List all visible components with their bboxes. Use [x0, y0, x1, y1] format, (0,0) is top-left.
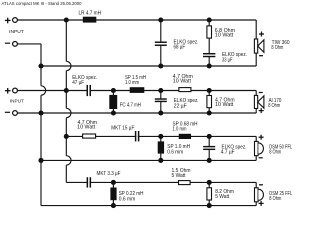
svg-text:5 Watt: 5 Watt: [172, 173, 187, 179]
resistor 8.2 Ohm 5 Watt: [207, 188, 212, 200]
minus mark DSM 50 FFL: [259, 157, 263, 159]
svg-text:8 Ohm: 8 Ohm: [271, 45, 283, 51]
svg-text:10 Watt: 10 Watt: [77, 125, 96, 131]
inductor SP 1.5 mH 1.0 mm: [130, 87, 145, 93]
node top rail / 6.8 Ohm: [207, 17, 212, 22]
capacitor ELKO spez. 4.7 uF (shunt): [203, 146, 215, 150]
node rail 3 / SP 1.0mH: [158, 134, 163, 139]
terminal input2 plus: [13, 88, 18, 93]
svg-text:8 Ohm: 8 Ohm: [269, 150, 281, 156]
label ELKO spez. 4.7 uF: [221, 144, 247, 155]
resistor 4.7 Ohm 10 Watt (row3 series): [83, 134, 96, 138]
wire rail y=160.4 (DSM 50 FFL return): [41, 159, 256, 161]
resistor 4.7 Ohm 10 Watt (shunt): [207, 96, 212, 108]
label SP 0.22 mH 0.6 mm: [119, 191, 144, 203]
svg-text:8 Ohm: 8 Ohm: [268, 103, 280, 109]
svg-text:4.7 µF: 4.7 µF: [221, 150, 235, 156]
inductor FC 4.7 mH: [109, 95, 117, 109]
svg-text:MKT 15 µF: MKT 15 µF: [111, 126, 134, 132]
wire branch x=209.2 rows 2: [208, 91, 210, 114]
node return rail 4 / 8.2 Ohm: [207, 203, 212, 208]
terminal input1 minus: [13, 42, 18, 47]
plus mark DSM 50 FFL: [259, 135, 264, 140]
svg-text:10 Watt: 10 Watt: [173, 79, 192, 85]
svg-text:68 µF: 68 µF: [174, 45, 186, 51]
wire rail y=113 (AL 170 return): [18, 112, 257, 114]
node plus-bus / top rail: [64, 17, 69, 22]
wire speaker feeds x=256.2: [255, 20, 257, 206]
svg-text:INPUT: INPUT: [9, 29, 24, 34]
node return rail 1 / ELKO 33uF: [207, 63, 212, 68]
inductor LR 4.7 mH: [83, 17, 97, 23]
wire branch x=209.2 rows 3: [208, 136, 210, 160]
label 8.2 Ohm 5 Watt: [215, 189, 234, 200]
resistor 1.5 Ohm 5 Watt: [179, 181, 191, 185]
label SP 1.0 mH 0.6 mm: [167, 144, 190, 155]
wire top rail y=20 (input1 + to TIW 360): [18, 19, 257, 21]
capacitor MKT 3.3 uF (series): [87, 177, 92, 187]
node return rail 2 / FC 4.7mH: [111, 110, 116, 115]
node return rail 3 / SP 1.0mH: [158, 158, 163, 163]
svg-text:FC 4.7 mH: FC 4.7 mH: [120, 103, 142, 109]
svg-text:0.6 mm: 0.6 mm: [119, 196, 136, 202]
wire input1 minus y=44: [18, 43, 41, 45]
capacitor ELKO spez. 22 uF (shunt): [155, 98, 167, 102]
node return rail 2 / ELKO 22uF: [158, 110, 163, 115]
svg-text:ATLAS compact MK III - Stand 2: ATLAS compact MK III - Stand 25.05.2000: [2, 1, 82, 6]
wire rail y=66 (TIW 360 return): [41, 65, 256, 67]
speaker DSM 50 FFL 8 Ohm: [255, 141, 264, 155]
svg-text:LR 4.7 mH: LR 4.7 mH: [79, 10, 102, 16]
wire minus bus x=41: [40, 44, 42, 206]
wire branch x=113.4 rows 4: [112, 182, 114, 205]
node minus-bus / return rail 2: [38, 110, 43, 115]
plus mark input1: [5, 18, 11, 24]
wire rail y=205.6 (DSM 25 FFL return): [41, 205, 256, 207]
plus mark input2: [5, 88, 11, 94]
label ELKO spez. 47 uF: [72, 75, 97, 86]
node rail 3 / ELKO 4.7uF: [207, 134, 212, 139]
inductor SP 0.22 mH 0.6 mm: [110, 188, 116, 201]
wire hop at (66,66): [66, 61, 71, 70]
label 4.7 Ohm 10 Watt (shunt): [215, 98, 235, 108]
label ELKO spez. 68 uF: [174, 40, 199, 51]
svg-text:MKT 3.3 µF: MKT 3.3 µF: [97, 171, 121, 177]
label 6.8 Ohm 10 Watt: [215, 28, 235, 39]
terminal input1 plus: [13, 18, 18, 23]
wire rail y=136.4 (to DSM 50 FFL): [66, 135, 256, 137]
wire branch x=113.4 rows 2: [112, 91, 114, 114]
node mid rail / ELKO 22uF: [158, 88, 163, 93]
capacitor ELKO spez. 68 uF: [155, 42, 167, 46]
speaker DSM 25 FFL 8 Ohm: [255, 188, 264, 202]
node mid rail / FC 4.7mH: [111, 88, 116, 93]
wire plus bus x=66.3: [65, 20, 67, 182]
svg-text:INPUT: INPUT: [10, 98, 24, 103]
svg-text:0.6 mm: 0.6 mm: [167, 150, 183, 156]
inductor SP 0.68 mH 1.0 mm: [179, 134, 191, 139]
minus mark AL 170: [259, 92, 263, 94]
wire branch x=160.8 rows 3: [160, 136, 162, 160]
speaker TIW 360 8 Ohm: [254, 39, 264, 53]
inductor SP 1.0 mH 0.6 mm: [158, 141, 164, 153]
minus mark input2: [5, 111, 10, 113]
svg-text:33 µF: 33 µF: [222, 58, 233, 64]
plus mark DSM 25 FFL: [259, 201, 264, 206]
node mid rail / 4.7 Ohm: [207, 88, 212, 93]
node plus-bus / mid rail: [64, 88, 69, 93]
svg-text:10 Watt: 10 Watt: [215, 33, 234, 39]
node minus-bus / return rail 1: [38, 63, 43, 68]
node return rail 4 / SP 0.22mH: [111, 203, 116, 208]
svg-text:1.0 mm: 1.0 mm: [173, 127, 187, 133]
node top rail / ELKO 68uF: [158, 17, 163, 22]
wire branch x=160.8 rows 2: [160, 91, 162, 114]
node return rail 1 / ELKO 68uF: [158, 63, 163, 68]
label TIW 360 8 Ohm: [271, 40, 289, 51]
label 4.7 Ohm 10 Watt (row3): [77, 120, 97, 131]
wire branch x=209.2 rows 1: [208, 20, 210, 66]
svg-text:22 µF: 22 µF: [174, 104, 187, 110]
plus mark TIW 360: [259, 32, 264, 37]
node rail 4 / SP 0.22mH: [111, 180, 116, 185]
node return rail 3 / ELKO 4.7uF: [207, 158, 212, 163]
label DSM 25 FFL 8 Ohm: [269, 191, 292, 202]
minus mark TIW 360: [259, 55, 263, 57]
resistor 4.7 Ohm 10 Watt (row2 series): [179, 88, 191, 92]
label ELKO spez. 22 uF: [174, 98, 199, 110]
svg-text:47 µF: 47 µF: [72, 80, 84, 86]
label ELKO spez. 33 uF: [222, 52, 247, 63]
wire hop at (41,90.5): [41, 86, 46, 95]
node plus-bus / rail 3: [64, 134, 69, 139]
minus mark input1: [5, 42, 10, 44]
capacitor ELKO spez. 33 uF: [203, 53, 215, 57]
svg-text:10 Watt: 10 Watt: [215, 102, 234, 108]
label 1.5 Ohm 5 Watt: [172, 168, 191, 179]
wire rail y=90.5 (input2 + to AL 170): [18, 90, 257, 92]
wire hop at (66,160.4): [66, 156, 71, 165]
label 4.7 Ohm 10 Watt (row2): [173, 74, 193, 84]
node return rail 2 / 4.7 Ohm: [207, 110, 212, 115]
label SP 0.68 mH 1.0 mm: [173, 122, 198, 133]
svg-text:5 Watt: 5 Watt: [215, 194, 230, 200]
wire branch x=209.2 rows 4: [208, 182, 210, 205]
capacitor ELKO spez. 47 uF (series): [87, 85, 92, 96]
svg-text:8 Ohm: 8 Ohm: [269, 196, 281, 202]
svg-text:1.0 mm: 1.0 mm: [125, 80, 139, 86]
wire hop at (66,113): [66, 108, 71, 117]
wire rail y=182.4 (to DSM 25 FFL): [66, 181, 256, 183]
plus mark AL 170: [259, 108, 264, 113]
node rail 4 / 8.2 Ohm: [207, 180, 212, 185]
terminal input2 minus: [13, 111, 18, 116]
node minus-bus / return rail 3: [38, 158, 43, 163]
wire branch x=160.8 rows 1: [160, 20, 162, 66]
resistor 6.8 Ohm 10 Watt: [207, 26, 212, 38]
minus mark DSM 25 FFL: [259, 184, 263, 186]
label DSM 50 FFL 8 Ohm: [269, 144, 292, 155]
label AL 170 8 Ohm: [268, 98, 281, 109]
capacitor MKT 15 uF (series): [135, 131, 140, 141]
label SP 1.5 mH 1.0 mm: [125, 75, 146, 86]
speaker AL 170 8 Ohm: [254, 95, 264, 108]
